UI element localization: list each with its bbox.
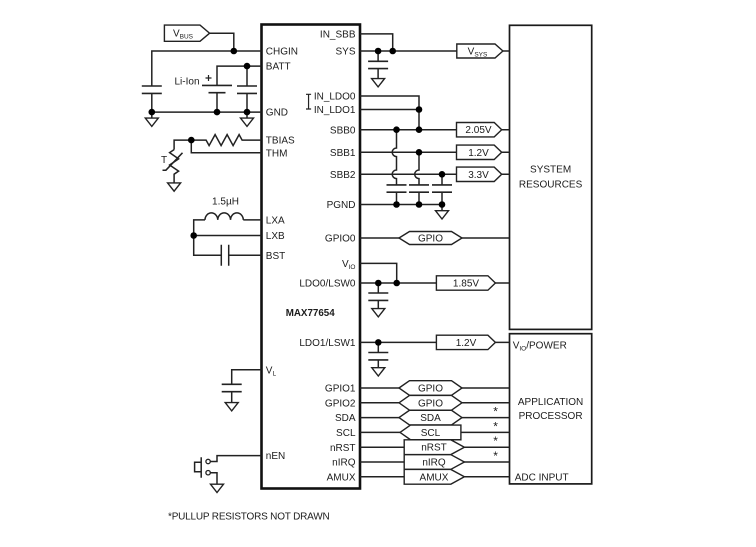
- svg-text:LXA: LXA: [266, 216, 285, 227]
- svg-text:SBB0: SBB0: [330, 125, 356, 136]
- svg-text:*: *: [493, 434, 498, 448]
- svg-text:IN_LDO0: IN_LDO0: [314, 92, 356, 103]
- svg-text:LDO0/LSW0: LDO0/LSW0: [299, 279, 356, 290]
- svg-text:APPLICATION: APPLICATION: [518, 397, 583, 408]
- svg-text:MAX77654: MAX77654: [286, 308, 336, 319]
- svg-text:TBIAS: TBIAS: [266, 136, 295, 147]
- svg-text:GPIO0: GPIO0: [325, 234, 356, 245]
- svg-text:LXB: LXB: [266, 231, 285, 242]
- svg-text:nEN: nEN: [266, 451, 285, 462]
- svg-text:BATT: BATT: [266, 62, 291, 73]
- svg-text:GPIO: GPIO: [418, 234, 443, 245]
- svg-text:LDO1/LSW1: LDO1/LSW1: [299, 338, 356, 349]
- svg-text:SDA: SDA: [335, 413, 356, 424]
- svg-text:*: *: [493, 419, 498, 433]
- svg-text:BST: BST: [266, 251, 285, 262]
- svg-text:THM: THM: [266, 148, 288, 159]
- svg-text:*PULLUP RESISTORS NOT DRAWN: *PULLUP RESISTORS NOT DRAWN: [168, 511, 330, 522]
- svg-text:SDA: SDA: [420, 413, 441, 424]
- svg-text:GND: GND: [266, 108, 288, 119]
- svg-text:ADC INPUT: ADC INPUT: [515, 473, 569, 484]
- svg-text:PROCESSOR: PROCESSOR: [519, 411, 583, 422]
- svg-text:GPIO2: GPIO2: [325, 398, 356, 409]
- svg-text:1.2V: 1.2V: [468, 148, 489, 159]
- svg-text:SYS: SYS: [335, 47, 355, 58]
- svg-text:SBB2: SBB2: [330, 170, 356, 181]
- svg-text:PGND: PGND: [327, 200, 356, 211]
- svg-text:SCL: SCL: [336, 428, 356, 439]
- svg-text:GPIO: GPIO: [418, 398, 443, 409]
- svg-text:1.2V: 1.2V: [456, 338, 477, 349]
- svg-text:nRST: nRST: [330, 443, 356, 454]
- svg-text:GPIO1: GPIO1: [325, 384, 356, 395]
- svg-text:T: T: [161, 155, 167, 166]
- svg-text:1.85V: 1.85V: [453, 279, 479, 290]
- svg-text:AMUX: AMUX: [327, 472, 356, 483]
- svg-text:RESOURCES: RESOURCES: [519, 180, 583, 191]
- svg-text:SCL: SCL: [421, 428, 441, 439]
- svg-text:GPIO: GPIO: [418, 384, 443, 395]
- svg-text:Li-Ion: Li-Ion: [174, 77, 199, 88]
- svg-text:IN_SBB: IN_SBB: [320, 30, 356, 41]
- svg-text:2.05V: 2.05V: [465, 125, 491, 136]
- svg-text:3.3V: 3.3V: [468, 170, 489, 181]
- svg-text:*: *: [493, 405, 498, 419]
- svg-text:nIRQ: nIRQ: [332, 458, 356, 469]
- svg-text:nRST: nRST: [421, 443, 447, 454]
- svg-text:SYSTEM: SYSTEM: [530, 165, 571, 176]
- svg-text:1.5µH: 1.5µH: [212, 197, 239, 208]
- svg-text:nIRQ: nIRQ: [422, 458, 446, 469]
- svg-text:*: *: [493, 449, 498, 463]
- svg-text:SBB1: SBB1: [330, 148, 356, 159]
- svg-text:AMUX: AMUX: [420, 472, 449, 483]
- svg-text:CHGIN: CHGIN: [266, 47, 298, 58]
- svg-text:IN_LDO1: IN_LDO1: [314, 105, 356, 116]
